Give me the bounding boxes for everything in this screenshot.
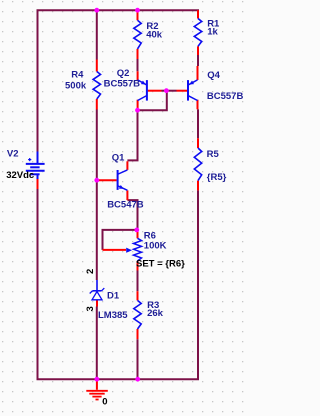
svg-text:40k: 40k (146, 29, 163, 40)
potentiometer R6 body (134, 238, 142, 261)
svg-text:Q1: Q1 (112, 152, 125, 163)
wire middle rail top (top rail to R4) (96, 10, 98, 59)
svg-text:{R5}: {R5} (207, 172, 227, 183)
svg-text:Q4: Q4 (207, 70, 220, 81)
junction top rail / middle rail (94, 8, 99, 13)
transistor Q4 body (188, 80, 198, 101)
junction Q2/Q4 base node (164, 88, 169, 93)
wire R3 bottom to ground rail (137, 339, 139, 379)
pin stub R6 wiper lead (103, 249, 127, 251)
pin stub R1 pin1 (197, 10, 199, 18)
wire Q1 emitter over to R6 top (127, 200, 137, 230)
wire battery bottom + bottom rail + right rail bottom (38, 189, 199, 379)
pin stub Q4 collector (197, 100, 199, 110)
pin stub Q4 emitter (197, 66, 199, 80)
svg-text:1k: 1k (207, 27, 218, 38)
resistor R2 body (134, 20, 141, 49)
pin stub D1 anode pin 3 (96, 301, 98, 307)
junction R6 top node (134, 228, 139, 233)
junction Q2 collector node (135, 108, 140, 113)
ground symbol 0 (86, 379, 108, 399)
pin stub Q1 base (98, 179, 117, 181)
junction top rail / R2 (135, 8, 140, 13)
pin stub Q2 emitter (137, 71, 139, 80)
wire R6 bottom to R3 top (137, 271, 139, 292)
wire middle rail (R4 to D1) (96, 110, 98, 281)
pin stub R4 pin2 (96, 99, 98, 110)
svg-text:0: 0 (102, 397, 107, 408)
svg-text:Q2: Q2 (117, 68, 130, 79)
resistor R1 body (194, 19, 201, 47)
junction Q1 base node (94, 178, 99, 183)
wire Q2 base to Q4 base link (162, 90, 177, 92)
resistor R5 body (194, 148, 201, 181)
pin stub R3 pin1 (137, 291, 139, 300)
wire R1 bottom to Q4 emitter (197, 55, 199, 66)
pin stub R3 pin2 (137, 329, 139, 339)
wire base node down and left to Q2 collector node (138, 91, 167, 111)
svg-text:2: 2 (85, 269, 96, 274)
wire R6 wiper loop (103, 230, 137, 250)
resistor R3 body (134, 300, 141, 329)
junction R3 / ground rail (135, 377, 140, 382)
svg-text:26k: 26k (147, 308, 164, 319)
wire Q4 collector to R5 top (197, 109, 199, 138)
svg-text:500k: 500k (65, 81, 87, 92)
pin stub Q4 base (177, 90, 188, 92)
pin stub R5 pin1 (197, 138, 199, 148)
pin stub R5 pin2 (197, 181, 199, 191)
svg-text:BC547B: BC547B (107, 199, 144, 210)
svg-text:32Vdc: 32Vdc (6, 170, 34, 181)
svg-text:BC557B: BC557B (207, 91, 244, 102)
pin stub R1 pin2 (197, 46, 199, 55)
pin stub R6 pin1 (137, 230, 139, 238)
svg-text:LM385: LM385 (98, 310, 128, 321)
svg-text:BC557B: BC557B (104, 79, 141, 90)
pin stub Q2 base (148, 90, 162, 92)
pin stub R2 pin2 (137, 49, 139, 59)
svg-text:R5: R5 (207, 149, 220, 160)
wire R2 bottom to Q2 emitter (137, 59, 139, 71)
svg-text:V2: V2 (7, 148, 19, 159)
wire left rail + top rail + right top corner (38, 10, 199, 151)
battery V2 body (26, 152, 45, 180)
transistor Q2 body (138, 80, 147, 101)
potentiometer R6 wiper arrow (126, 248, 132, 253)
svg-text:D1: D1 (107, 290, 120, 301)
pin stub Q1 emitter (126, 190, 128, 200)
wire middle rail bottom (D1 to ground rail) (96, 307, 98, 380)
transistor Q1 body (118, 170, 128, 190)
resistor R4 body (93, 72, 100, 100)
svg-text:SET = {R6}: SET = {R6} (136, 258, 185, 269)
pin stub V2 minus (37, 179, 39, 189)
pin stub R4 pin1 (96, 60, 98, 72)
pin stub R2 pin1 (137, 10, 139, 20)
svg-text:3: 3 (85, 306, 96, 311)
junction ground node (95, 377, 100, 382)
svg-text:100K: 100K (144, 240, 167, 251)
pin stub Q1 collector (126, 161, 128, 170)
diode D1 body (zener LM385) (90, 280, 105, 300)
svg-text:R4: R4 (71, 69, 84, 80)
wire Q2 collector node down to Q1 collector (127, 110, 137, 160)
pin stub R6 pin2 (137, 261, 139, 271)
pin stub Q2 collector (137, 100, 139, 111)
